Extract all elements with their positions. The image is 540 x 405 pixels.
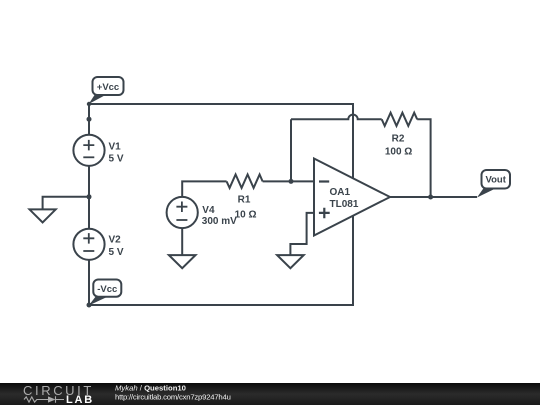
ground op-amp — [277, 255, 304, 268]
resistor R1 — [227, 175, 263, 188]
wire V1 to node A — [88, 166, 90, 197]
svg-text:+Vcc: +Vcc — [97, 82, 119, 93]
junction dot node between +Vcc and V1 — [87, 117, 92, 122]
svg-text:OA1: OA1 — [330, 187, 351, 198]
wire feedback horizontal with crossover hop — [291, 115, 382, 120]
CircuitLab logo — [23, 383, 94, 405]
footer bar — [0, 383, 540, 405]
wire +Vcc to V1 — [88, 104, 90, 135]
net label Vout — [477, 170, 510, 198]
wire R1 to op-amp inverting input — [263, 180, 314, 182]
svg-text:V4: V4 — [202, 205, 215, 216]
ground V4 — [169, 255, 196, 268]
value label R1 — [235, 195, 257, 221]
voltage source V2 — [73, 229, 104, 260]
value label V1 — [109, 142, 124, 165]
net label -Vcc — [89, 280, 122, 306]
svg-text:http://circuitlab.com/cxn7zp92: http://circuitlab.com/cxn7zp9247h4u — [115, 392, 231, 401]
wire node A to V2 — [88, 197, 90, 229]
wire -Vcc bottom rail — [89, 216, 353, 305]
voltage source V4 — [167, 197, 198, 228]
svg-text:TL081: TL081 — [330, 199, 359, 210]
svg-text:LAB: LAB — [66, 394, 94, 405]
wire V4 to R1 — [182, 181, 226, 197]
wire output — [390, 196, 477, 198]
svg-text:300 mV: 300 mV — [202, 216, 237, 227]
junction dot output node — [428, 195, 433, 200]
svg-text:-Vcc: -Vcc — [97, 284, 117, 295]
svg-text:5 V: 5 V — [109, 247, 124, 258]
op-amp OA1 — [314, 159, 390, 236]
svg-text:V1: V1 — [109, 142, 122, 153]
ground left — [30, 209, 56, 222]
value label OA1 TL081 — [330, 187, 359, 210]
svg-text:Vout: Vout — [485, 175, 506, 186]
wire node A to ground — [43, 197, 89, 210]
svg-text:5 V: 5 V — [109, 154, 124, 165]
svg-text:V2: V2 — [109, 234, 122, 245]
wire R2 to output node — [417, 119, 430, 197]
junction dot node A (V1/V2/ground) — [87, 194, 92, 199]
wire feedback vertical — [290, 119, 292, 181]
net label +Vcc — [87, 77, 124, 106]
svg-text:R2: R2 — [392, 133, 405, 144]
footer title text — [115, 384, 231, 402]
value label V2 — [109, 234, 124, 258]
junction dot inverting input node — [289, 179, 294, 184]
value label R2 — [385, 133, 412, 157]
svg-text:Mykah / Question10: Mykah / Question10 — [115, 384, 186, 393]
value label V4 — [202, 205, 237, 227]
svg-text:100 Ω: 100 Ω — [385, 147, 412, 158]
wire +Vcc top rail — [89, 104, 353, 178]
voltage source V1 — [73, 135, 104, 166]
resistor R2 — [382, 113, 418, 126]
wire op-amp non-inverting input to ground — [290, 213, 314, 255]
svg-text:10 Ω: 10 Ω — [235, 210, 257, 221]
wire V4 to ground — [181, 228, 183, 255]
junction dot -Vcc node — [87, 303, 92, 308]
svg-text:R1: R1 — [238, 195, 251, 206]
wire V2 to -Vcc node — [88, 260, 90, 305]
